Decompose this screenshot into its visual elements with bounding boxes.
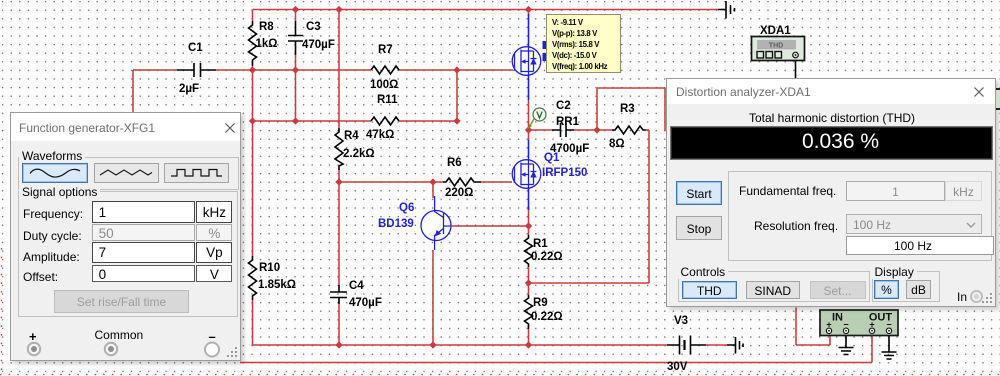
svg-text:C3: C3 [306,21,321,33]
svg-text:IN: IN [832,312,843,324]
svg-text:R1: R1 [533,238,548,250]
svg-text:1.85kΩ: 1.85kΩ [258,279,296,291]
svg-text:8Ω: 8Ω [609,138,625,150]
svg-text:0.22Ω: 0.22Ω [531,311,563,323]
svg-text:220Ω: 220Ω [445,187,473,199]
svg-text:R6: R6 [447,157,462,169]
svg-text:100Ω: 100Ω [370,79,398,91]
svg-text:R11: R11 [377,94,398,106]
svg-text:R9: R9 [533,297,548,309]
svg-text:Q1: Q1 [544,152,560,164]
svg-text:2.2kΩ: 2.2kΩ [343,148,375,160]
svg-text:Q6: Q6 [399,202,414,214]
svg-text:THD: THD [769,43,783,50]
svg-text:R10: R10 [259,262,280,274]
svg-text:C1: C1 [188,42,203,54]
svg-text:2µF: 2µF [179,83,199,95]
svg-text:R7: R7 [378,44,393,56]
svg-text:C2: C2 [556,100,571,112]
svg-text:R8: R8 [259,21,274,33]
svg-text:47kΩ: 47kΩ [366,129,394,141]
svg-text:V3: V3 [674,315,688,327]
svg-text:R4: R4 [344,130,359,142]
svg-text:470µF: 470µF [302,39,335,51]
svg-text:1kΩ: 1kΩ [256,38,278,50]
svg-text:470µF: 470µF [349,297,382,309]
svg-text:C4: C4 [349,280,364,292]
svg-text:R3: R3 [620,103,635,115]
svg-text:BD139: BD139 [378,218,414,230]
svg-text:IRFP150: IRFP150 [542,167,587,179]
svg-text:RR1: RR1 [556,116,580,128]
svg-text:XDA1: XDA1 [760,25,791,37]
svg-text:0.22Ω: 0.22Ω [531,251,563,263]
svg-text:30V: 30V [667,361,688,373]
